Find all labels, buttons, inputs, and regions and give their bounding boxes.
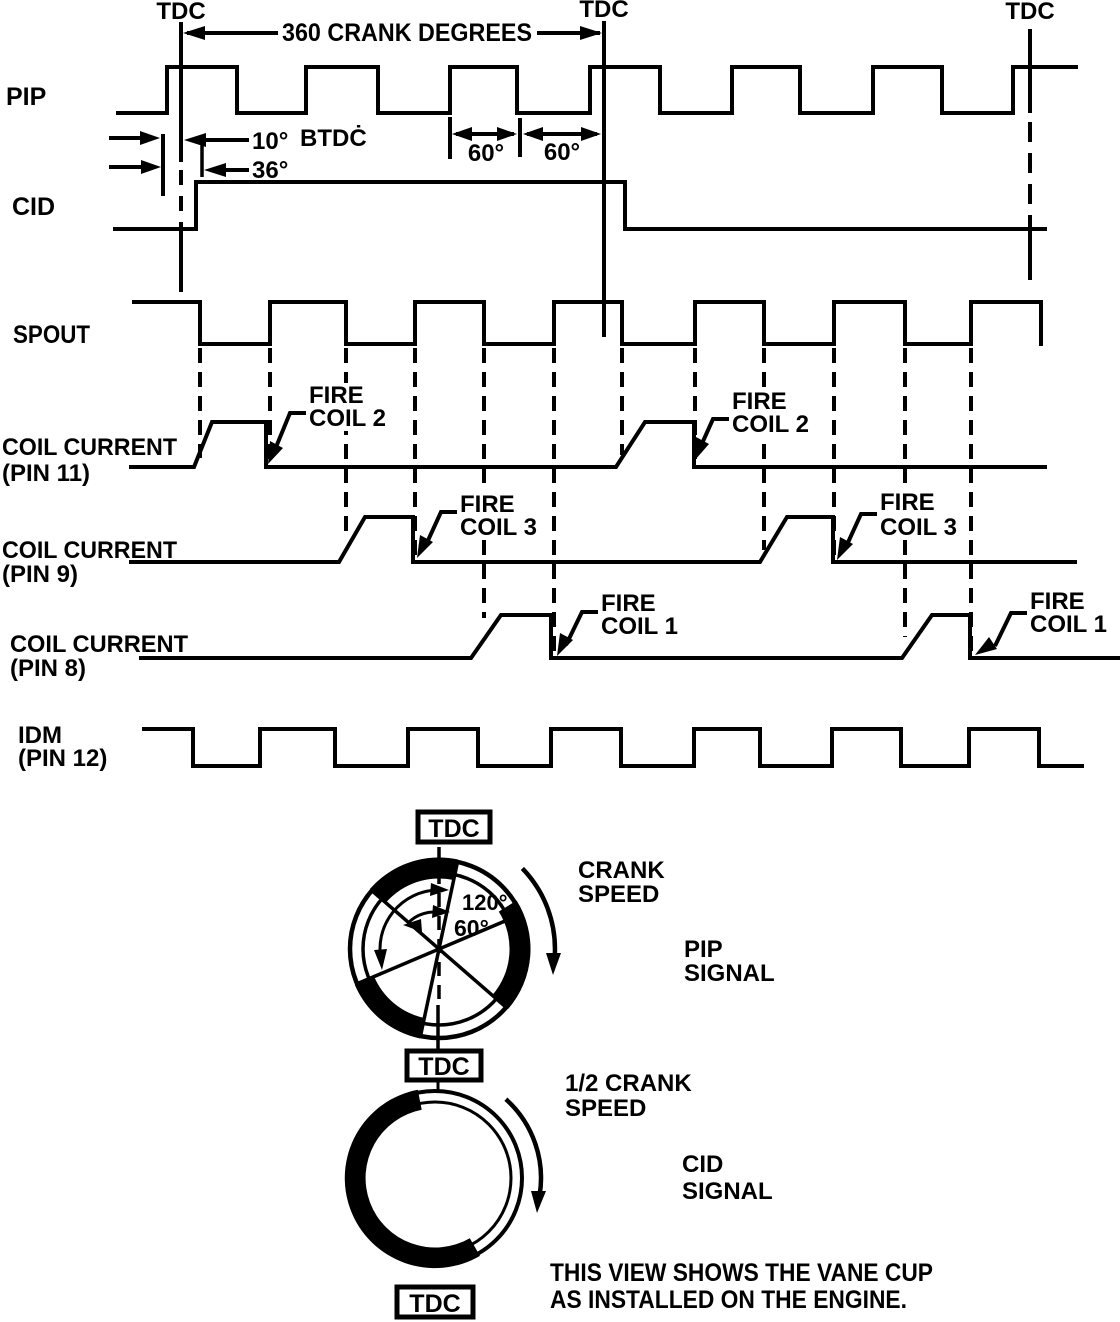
fire coil 3 label 1 [417, 490, 546, 558]
svg-text:120°: 120° [462, 890, 508, 915]
dashed line at 415 [413, 348, 417, 558]
svg-text:SIGNAL: SIGNAL [684, 960, 775, 987]
arc 60 degrees [403, 905, 450, 932]
link line box to cid circle [437, 1081, 440, 1092]
dashed line at 971 [969, 348, 973, 653]
svg-text:AS INSTALLED ON THE ENGINE.: AS INSTALLED ON THE ENGINE. [550, 1286, 907, 1314]
wire IDM waveform [144, 729, 1082, 766]
wire TDC line 2 [602, 21, 606, 337]
wire CID waveform [115, 182, 1045, 229]
dashed axis through vane cup 1 [437, 847, 441, 1005]
dashed line at 200 [198, 348, 202, 458]
fire coil 2 label 1 [268, 382, 394, 464]
svg-text:1/2 CRANK: 1/2 CRANK [565, 1070, 692, 1097]
CRANK SPEED label [578, 857, 665, 908]
wire SPOUT waveform [134, 302, 1041, 344]
svg-text:(PIN 8): (PIN 8) [10, 655, 86, 682]
wire coil current pin 11 waveform [131, 422, 1045, 467]
vane cup 1 vane right [492, 901, 530, 1010]
spoke 3 [373, 892, 504, 1006]
svg-text:BTDĊ: BTDĊ [300, 125, 367, 152]
svg-text:COIL 3: COIL 3 [880, 514, 957, 541]
svg-text:360 CRANK DEGREES: 360 CRANK DEGREES [282, 19, 532, 47]
wire TDC line 3 [1028, 29, 1032, 280]
svg-text:CID: CID [12, 193, 55, 221]
dashed line at 834 [832, 348, 836, 558]
dashed line at 695 [693, 348, 697, 462]
dimension 60 degrees right [520, 118, 601, 166]
1/2 CRANK SPEED label [565, 1070, 692, 1122]
node PIP edge tick [161, 134, 165, 196]
spoke 1 [421, 864, 457, 1034]
svg-text:CRANK: CRANK [578, 857, 665, 884]
COIL CURRENT PIN 9 label [2, 537, 177, 588]
arc 120 degrees [374, 883, 449, 970]
wire TDC line 1 solid [179, 22, 183, 162]
svg-text:COIL 3: COIL 3 [460, 514, 537, 541]
fire coil 2 label 2 [695, 388, 811, 460]
svg-text:COIL 2: COIL 2 [309, 405, 386, 432]
dashed line at 622 [620, 348, 624, 455]
svg-text:COIL CURRENT: COIL CURRENT [2, 434, 177, 461]
dashed line at 905 [903, 348, 907, 637]
svg-text:(PIN 11): (PIN 11) [2, 460, 90, 487]
cid circle outer [348, 1091, 522, 1265]
dashed line at 764 [762, 348, 766, 550]
vane cup 1 inner circle [363, 873, 515, 1025]
svg-text:COIL CURRENT: COIL CURRENT [10, 631, 188, 658]
svg-text:TDC: TDC [579, 0, 628, 23]
wire coil current pin 8 waveform [141, 615, 1120, 658]
rotation arrow half crank speed [506, 1099, 546, 1213]
dashed line at 270 [268, 348, 272, 462]
COIL CURRENT PIN 8 label [10, 631, 188, 682]
cid circle inner [359, 1102, 511, 1254]
svg-text:COIL 1: COIL 1 [601, 613, 678, 640]
fire coil 1 label 2 [975, 588, 1107, 655]
rotation arrow crank speed [522, 868, 561, 975]
dashed line at 484 [482, 348, 486, 618]
svg-text:TDC: TDC [156, 0, 205, 25]
svg-text:CID: CID [682, 1151, 723, 1178]
fire coil 1 label 1 [557, 590, 678, 656]
wire coil current pin 9 waveform [131, 517, 1075, 562]
svg-text:10°: 10° [252, 128, 288, 155]
svg-text:60°: 60° [468, 140, 504, 167]
dimension 36 degrees [204, 157, 288, 184]
svg-text:TDC: TDC [418, 1053, 469, 1081]
axis solid lower segment [436, 1005, 440, 1050]
vane cup 1 outer circle [350, 860, 528, 1038]
caption text [550, 1259, 933, 1314]
svg-text:(PIN 9): (PIN 9) [2, 561, 78, 588]
svg-text:TDC: TDC [428, 815, 479, 843]
svg-text:SPOUT: SPOUT [13, 321, 90, 349]
dimension 60 degrees left [450, 117, 517, 167]
IDM PIN 12 label [18, 722, 107, 772]
dimension 10 degrees BTDC [184, 125, 367, 155]
svg-text:60°: 60° [454, 915, 489, 941]
svg-text:(PIN 12): (PIN 12) [18, 745, 107, 772]
PIP SIGNAL label [684, 936, 775, 987]
svg-text:COIL 2: COIL 2 [732, 411, 809, 438]
svg-text:TDC: TDC [1005, 0, 1054, 25]
svg-text:60°: 60° [544, 139, 580, 166]
svg-text:36°: 36° [252, 157, 288, 184]
pointer arrows at PIP edge [109, 131, 161, 174]
CID SIGNAL label [682, 1151, 773, 1205]
fire coil 3 label 2 [837, 489, 959, 560]
wire elbow tick [200, 139, 204, 177]
wire PIP waveform [118, 67, 1076, 113]
svg-text:FIRE: FIRE [880, 489, 935, 516]
svg-text:SPEED: SPEED [565, 1095, 646, 1122]
cid dark arc [345, 1090, 480, 1268]
dashed line at 346 [344, 348, 348, 536]
TDC box top [418, 812, 490, 843]
svg-text:TDC: TDC [409, 1290, 460, 1318]
svg-text:THIS VIEW SHOWS THE VANE CUP: THIS VIEW SHOWS THE VANE CUP [550, 1259, 933, 1287]
dashed line at 554 [552, 348, 556, 653]
wire TDC line 1 dashed [179, 170, 183, 235]
wire TDC line 1 lower solid [179, 235, 183, 292]
TDC box bottom [397, 1287, 473, 1318]
svg-text:SIGNAL: SIGNAL [682, 1178, 773, 1205]
vane cup 1 vane bottom left [355, 977, 425, 1039]
svg-text:SPEED: SPEED [578, 881, 659, 908]
svg-text:COIL CURRENT: COIL CURRENT [2, 537, 177, 564]
vane cup 1 vane top [370, 858, 458, 903]
COIL CURRENT PIN 11 label [2, 434, 177, 487]
TDC box middle [407, 1051, 481, 1081]
dimension 360 crank degrees [183, 19, 602, 47]
svg-text:PIP: PIP [684, 936, 723, 963]
spoke 2 [359, 915, 519, 983]
svg-text:PIP: PIP [6, 83, 46, 111]
svg-text:COIL 1: COIL 1 [1030, 611, 1107, 638]
